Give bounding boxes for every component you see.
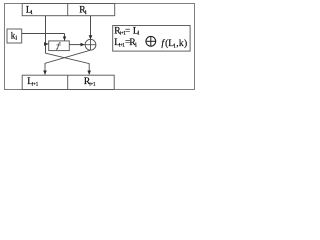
svg-text:,k): ,k) [176,38,187,49]
wire Ri down to xor [90,16,92,40]
svg-text:i: i [31,9,33,16]
wire Li down [45,16,47,53]
wire xor cross to Li+1 [45,50,90,74]
register box Li/Ri (top) [22,4,115,16]
divider bottom box [67,75,69,89]
svg-text:=: = [125,26,130,36]
svg-text:i+1: i+1 [89,83,96,88]
divider top box [67,4,69,16]
wire Li cross to Ri+1 [46,53,90,74]
wire ki into f top [64,34,66,41]
svg-text:i: i [15,35,17,42]
equation box [113,26,190,52]
wire ki horizontal [22,33,65,35]
key box ki [7,29,22,43]
label f [56,43,60,50]
svg-text:i: i [135,41,137,48]
function box f [49,41,70,51]
register box Li+1/Ri+1 (bottom) [22,75,114,89]
svg-text:i: i [138,30,140,37]
svg-text:i: i [85,9,87,16]
equation xor symbol [146,36,156,46]
xor circle [85,39,96,50]
svg-text:i+1: i+1 [32,83,39,88]
wire Li into f left [46,43,49,45]
outer frame [5,4,195,90]
wire f output to xor [69,44,84,46]
